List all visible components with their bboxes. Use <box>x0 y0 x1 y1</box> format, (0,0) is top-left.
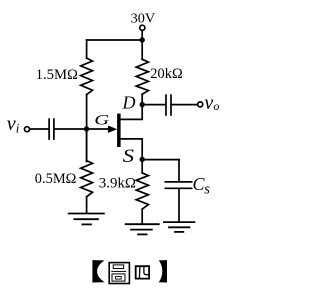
svg-text:G: G <box>94 111 109 128</box>
svg-text:3.9kΩ: 3.9kΩ <box>99 175 136 191</box>
svg-text:S: S <box>123 145 135 167</box>
svg-text:s: s <box>204 181 210 197</box>
svg-text:0.5MΩ: 0.5MΩ <box>35 171 77 187</box>
svg-text:30V: 30V <box>131 12 156 27</box>
svg-text:i: i <box>16 120 20 135</box>
svg-text:v: v <box>7 113 16 135</box>
svg-text:1.5MΩ: 1.5MΩ <box>36 67 79 83</box>
svg-text:o: o <box>213 99 219 113</box>
svg-text:v: v <box>204 92 213 114</box>
svg-text:20kΩ: 20kΩ <box>150 66 183 82</box>
svg-text:D: D <box>122 93 136 113</box>
